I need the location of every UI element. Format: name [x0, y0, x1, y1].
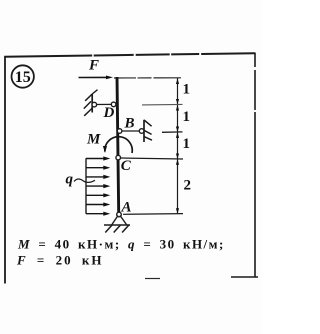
svg-text:15: 15 — [15, 69, 31, 86]
svg-text:M = 40 кН·м; q = 30 кН/м;: M = 40 кН·м; q = 30 кН/м; — [17, 237, 225, 252]
svg-text:M: M — [86, 132, 101, 148]
svg-text:q: q — [66, 172, 74, 188]
svg-text:F = 20 кН: F = 20 кН — [16, 253, 103, 268]
svg-text:C: C — [121, 158, 132, 174]
svg-text:F: F — [88, 58, 99, 74]
svg-text:A: A — [121, 200, 132, 216]
svg-text:1: 1 — [183, 136, 191, 152]
svg-text:B: B — [124, 116, 135, 132]
svg-text:1: 1 — [183, 82, 191, 98]
svg-text:D: D — [103, 105, 115, 121]
svg-text:2: 2 — [184, 178, 192, 194]
svg-text:1: 1 — [183, 109, 191, 125]
